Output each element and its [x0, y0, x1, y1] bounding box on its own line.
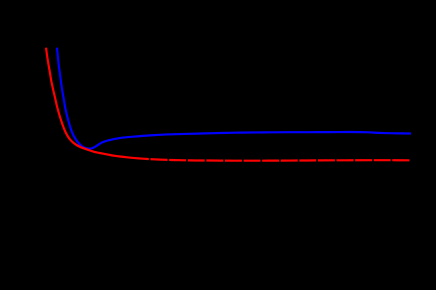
red curve flat dashed section [132, 158, 410, 161]
red curve steep solid section [46, 48, 132, 158]
blue solid curve [57, 48, 411, 149]
